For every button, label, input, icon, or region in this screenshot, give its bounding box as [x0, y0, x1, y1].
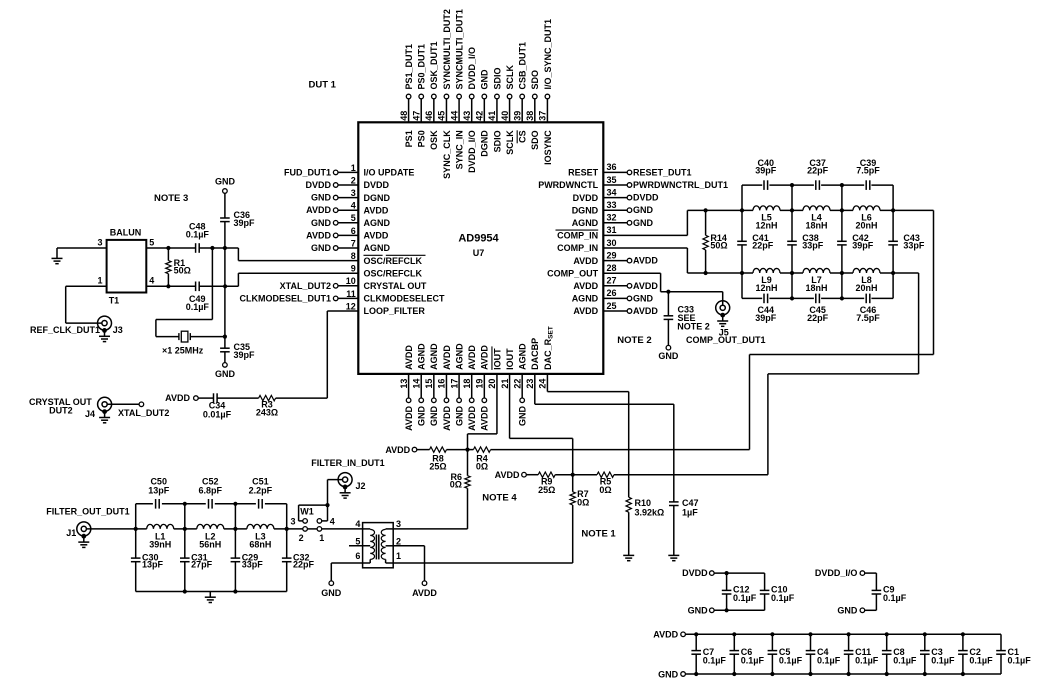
resistor R6	[467, 450, 469, 476]
svg-text:GND: GND	[321, 588, 342, 598]
pin 10 CRYSTAL OUT	[280, 276, 427, 291]
svg-text:AGND: AGND	[572, 294, 599, 304]
svg-text:46: 46	[424, 111, 434, 121]
wire pin 31 COMP_INB to ladder	[603, 234, 687, 236]
svg-text:4: 4	[330, 516, 335, 526]
svg-text:28: 28	[607, 263, 617, 273]
svg-text:23: 23	[525, 379, 535, 389]
pin 16 AVDD	[437, 345, 452, 431]
svg-text:FUD_DUT1: FUD_DUT1	[284, 167, 331, 177]
svg-text:AVDD: AVDD	[467, 345, 477, 370]
svg-text:48: 48	[399, 111, 409, 121]
wire transformer pin 6 to GND terminal	[331, 562, 362, 564]
ground at J2	[343, 485, 348, 490]
svg-text:OSK: OSK	[429, 130, 439, 150]
svg-text:AVDD: AVDD	[467, 406, 477, 431]
svg-text:6.8pF: 6.8pF	[199, 485, 223, 495]
svg-text:COMP_OUT_DUT1: COMP_OUT_DUT1	[686, 335, 766, 345]
svg-text:AVDD: AVDD	[306, 230, 331, 240]
capacitor C35 with GND terminal	[224, 337, 226, 349]
svg-text:39nH: 39nH	[149, 539, 171, 549]
svg-text:SDIO: SDIO	[492, 67, 502, 89]
capacitor C46	[866, 294, 870, 304]
pin 47 PS0	[411, 44, 426, 147]
svg-text:PWRDWNCTL: PWRDWNCTL	[538, 180, 598, 190]
svg-text:OSC/REFCLK: OSC/REFCLK	[364, 268, 423, 278]
svg-text:OSC/REFCLK: OSC/REFCLK	[364, 256, 423, 266]
capacitor C45	[816, 294, 820, 304]
svg-text:26: 26	[607, 288, 617, 298]
svg-text:0.01µF: 0.01µF	[203, 410, 232, 420]
svg-text:33pF: 33pF	[242, 560, 264, 570]
filter top wire with caps	[136, 503, 153, 505]
pin 4 AVDD	[306, 201, 389, 216]
svg-text:AVDD: AVDD	[364, 231, 389, 241]
ladder top rail	[687, 209, 753, 211]
svg-text:3: 3	[351, 188, 356, 198]
wire crystal to C35 node	[190, 336, 225, 338]
terminal DVDD	[710, 571, 715, 576]
ground at filter	[209, 592, 211, 598]
resistor R4	[468, 449, 474, 451]
svg-text:SYNC_IN: SYNC_IN	[454, 130, 464, 169]
svg-text:REF_CLK_DUT1: REF_CLK_DUT1	[30, 325, 100, 335]
svg-text:13pF: 13pF	[142, 560, 164, 570]
wire ladder bottom rail to R5 row	[918, 273, 920, 374]
pin 42 DGND	[475, 69, 490, 157]
svg-text:AGND: AGND	[364, 218, 391, 228]
svg-text:SYNCMULTI_DUT2: SYNCMULTI_DUT2	[442, 9, 452, 89]
terminal GND under transformer	[329, 581, 334, 586]
svg-text:19: 19	[475, 379, 485, 389]
pin 44 SYNC_IN	[449, 9, 464, 169]
svg-text:243Ω: 243Ω	[256, 408, 278, 418]
svg-text:2: 2	[299, 533, 304, 543]
svg-text:AGND: AGND	[429, 343, 439, 370]
pin 15 AGND	[424, 343, 439, 426]
svg-text:RESET: RESET	[568, 168, 599, 178]
svg-text:AVDD: AVDD	[442, 406, 452, 431]
terminal DVDD_I/O	[860, 571, 865, 576]
capacitor C30	[131, 558, 141, 562]
svg-text:AVDD: AVDD	[633, 306, 658, 316]
svg-text:39pF: 39pF	[755, 166, 777, 176]
wire R3 to pin 12 LOOP_FILTER	[276, 397, 328, 399]
svg-text:0.1µF: 0.1µF	[186, 302, 210, 312]
pin 7 AGND	[311, 238, 390, 253]
svg-text:12nH: 12nH	[755, 283, 777, 293]
svg-text:GND: GND	[480, 69, 490, 90]
svg-text:0.1µF: 0.1µF	[883, 593, 907, 603]
pin 39 CS	[512, 42, 527, 143]
wire R8 to node	[447, 449, 468, 451]
svg-text:0.1µF: 0.1µF	[931, 655, 955, 665]
wire DVDD GND rail	[714, 609, 765, 611]
svg-text:22pF: 22pF	[807, 166, 829, 176]
svg-text:68nH: 68nH	[249, 539, 271, 549]
wire J1 to filter	[86, 528, 147, 530]
wire AVDD rail	[685, 633, 1001, 635]
svg-text:I/O UPDATE: I/O UPDATE	[364, 168, 415, 178]
svg-text:IOUT: IOUT	[492, 348, 502, 370]
terminal AVDD row 1	[412, 447, 417, 452]
transformer T2 core	[375, 535, 377, 560]
svg-text:27pF: 27pF	[191, 560, 213, 570]
svg-text:6: 6	[351, 226, 356, 236]
svg-text:NOTE 1: NOTE 1	[581, 528, 616, 539]
pin 35 PWRDWNCTL	[538, 175, 728, 190]
ground at J5	[720, 313, 725, 318]
terminal GND bypass group	[681, 672, 686, 677]
svg-text:PS1: PS1	[404, 130, 414, 147]
svg-text:PS0_DUT1: PS0_DUT1	[417, 44, 427, 90]
svg-text:DVDD: DVDD	[682, 568, 708, 578]
terminal AVDD row 2	[522, 472, 527, 477]
svg-text:8: 8	[351, 251, 356, 261]
ground at C47	[668, 555, 679, 560]
svg-text:AD9954: AD9954	[458, 233, 499, 245]
resistor R10	[626, 497, 631, 512]
resistor R8	[430, 447, 447, 452]
svg-text:DVDD: DVDD	[364, 180, 390, 190]
capacitor C39	[866, 180, 870, 190]
svg-text:50Ω: 50Ω	[174, 266, 191, 276]
svg-text:NOTE 3: NOTE 3	[154, 193, 188, 204]
capacitor C33	[667, 292, 669, 316]
capacitor C1	[996, 634, 1031, 674]
svg-text:GND: GND	[837, 606, 858, 616]
svg-text:50Ω: 50Ω	[710, 241, 727, 251]
pin 24 DAC_R	[538, 326, 555, 388]
pin 8 OSC/REFCLK	[351, 251, 426, 266]
wire pin 20 IOUTB to node	[496, 374, 498, 434]
svg-text:GND: GND	[429, 406, 439, 427]
pin 27 AVDD	[573, 276, 658, 291]
transformer T2 body	[363, 523, 394, 568]
svg-text:56nH: 56nH	[199, 539, 221, 549]
wire AVDD GND rail	[685, 673, 1001, 675]
svg-text:DVDD: DVDD	[573, 193, 599, 203]
svg-text:AVDD: AVDD	[165, 393, 190, 403]
svg-text:GND: GND	[688, 606, 709, 616]
svg-text:AGND: AGND	[364, 243, 391, 253]
pin 48 PS1	[399, 44, 414, 147]
wire R4 row to right	[491, 449, 750, 451]
pin 28 COMP_OUT	[547, 263, 616, 278]
connector J1	[77, 522, 91, 536]
svg-text:17: 17	[449, 379, 459, 389]
svg-text:AVDD: AVDD	[573, 306, 598, 316]
svg-text:DACBP: DACBP	[530, 338, 540, 370]
svg-text:SYNCMULTI_DUT1: SYNCMULTI_DUT1	[454, 9, 464, 89]
svg-text:16: 16	[437, 379, 447, 389]
ladder vertical columns	[741, 185, 743, 210]
svg-text:1: 1	[319, 533, 324, 543]
svg-text:CS: CS	[518, 130, 528, 143]
capacitor C12	[726, 573, 728, 590]
svg-text:NOTE 2: NOTE 2	[677, 322, 710, 332]
svg-text:7: 7	[351, 238, 356, 248]
svg-text:AVDD: AVDD	[653, 629, 678, 639]
svg-text:AVDD: AVDD	[480, 406, 490, 431]
svg-text:LOOP_FILTER: LOOP_FILTER	[364, 306, 426, 316]
svg-text:GND: GND	[417, 406, 427, 427]
wire transformer pin 2 to AVDD terminal	[393, 545, 424, 547]
jumper W1 bracket wire	[298, 505, 300, 521]
inductor L2	[197, 524, 224, 529]
wire C49 to pin 9 step	[199, 285, 238, 287]
svg-text:4: 4	[351, 201, 356, 211]
wire DVDD rail	[714, 572, 765, 574]
pin 38 SDO	[525, 70, 540, 150]
capacitor C51	[259, 499, 263, 509]
terminal XTAL_DUT2	[139, 402, 144, 407]
svg-text:0.1µF: 0.1µF	[771, 593, 795, 603]
pin 3 DGND	[311, 188, 390, 203]
svg-text:42: 42	[475, 111, 485, 121]
svg-text:18nH: 18nH	[805, 220, 827, 230]
svg-text:AVDD: AVDD	[573, 256, 598, 266]
svg-text:14: 14	[411, 379, 421, 389]
capacitor C32	[282, 558, 292, 562]
capacitor C5	[768, 632, 803, 676]
svg-text:DVDD: DVDD	[305, 180, 331, 190]
ground at J3	[102, 328, 107, 333]
wire balun pin 5 row	[146, 247, 195, 249]
svg-text:T1: T1	[109, 296, 120, 306]
svg-text:29: 29	[607, 250, 617, 260]
IC U7 AD9954 body	[358, 122, 603, 374]
pin 14 AGND	[411, 343, 426, 426]
svg-text:18: 18	[462, 379, 472, 389]
svg-text:11: 11	[346, 289, 356, 299]
svg-text:33pF: 33pF	[802, 241, 824, 251]
wire balun pin 3 to ground	[57, 247, 107, 249]
wire J2 to W1	[328, 479, 343, 481]
svg-text:J1: J1	[66, 528, 76, 538]
connector J2	[338, 473, 352, 487]
resistor R14	[705, 210, 707, 235]
svg-text:39pF: 39pF	[755, 313, 777, 323]
wire crystal loop from OSC node	[211, 248, 213, 320]
capacitor C11	[844, 632, 879, 676]
wire C48 to pin 8 step	[199, 247, 238, 249]
capacitor C49	[196, 282, 200, 292]
svg-text:22pF: 22pF	[752, 241, 774, 251]
svg-text:41: 41	[487, 111, 497, 121]
svg-text:PS0: PS0	[417, 130, 427, 147]
capacitor C44	[764, 294, 768, 304]
svg-text:20: 20	[487, 379, 497, 389]
pin 5 AGND	[311, 213, 390, 228]
svg-text:DUT 1: DUT 1	[309, 80, 337, 91]
inductor L7	[803, 268, 830, 273]
wire R9 to node	[555, 474, 573, 476]
svg-text:4: 4	[149, 276, 154, 286]
wire pin 30 COMP_IN to ladder	[603, 247, 687, 249]
svg-text:4: 4	[355, 519, 360, 529]
svg-text:DVDD_I/O: DVDD_I/O	[467, 47, 477, 90]
wire transformer pin 3 to R6	[393, 528, 467, 530]
capacitor C37	[816, 180, 820, 190]
wire transformer pin 1 to R7	[393, 562, 573, 564]
svg-text:SCLK: SCLK	[505, 65, 515, 90]
resistor R7	[572, 475, 574, 492]
pin 31 COMP_IN	[556, 225, 617, 240]
svg-text:0.1µF: 0.1µF	[817, 655, 841, 665]
svg-text:40: 40	[500, 111, 510, 121]
inductor L1	[147, 524, 174, 529]
wire AVDD to R8	[417, 449, 430, 451]
svg-text:0.1µF: 0.1µF	[186, 230, 210, 240]
inductor L9	[753, 268, 780, 273]
svg-text:7.5pF: 7.5pF	[856, 166, 880, 176]
svg-text:32: 32	[607, 213, 617, 223]
svg-text:AGND: AGND	[518, 343, 528, 370]
svg-text:18nH: 18nH	[805, 283, 827, 293]
wire C34 to R3	[217, 397, 259, 399]
node IOUTB junction	[465, 448, 469, 452]
capacitor C48	[196, 243, 200, 253]
wire node to R5	[573, 474, 597, 476]
svg-text:39pF: 39pF	[234, 218, 256, 228]
wire C36 column down to crystal node	[224, 248, 226, 286]
filter bottom wire	[136, 591, 287, 593]
svg-text:SDO: SDO	[530, 70, 540, 90]
capacitor C34	[214, 393, 218, 403]
capacitor C43	[892, 210, 894, 241]
svg-text:13: 13	[399, 379, 409, 389]
svg-text:J3: J3	[113, 325, 123, 335]
svg-text:20nH: 20nH	[855, 283, 877, 293]
svg-text:22: 22	[512, 379, 522, 389]
inductor L4	[803, 206, 830, 211]
wire balun pin 1 to J3	[66, 285, 107, 287]
pin 20 IOUT	[487, 346, 502, 388]
resistor R5	[597, 472, 614, 477]
svg-text:COMP_IN: COMP_IN	[557, 231, 598, 241]
svg-text:0.1µF: 0.1µF	[733, 593, 757, 603]
svg-text:25Ω: 25Ω	[429, 461, 446, 471]
svg-text:DVDD_I/O: DVDD_I/O	[815, 568, 858, 578]
svg-text:GND: GND	[633, 293, 654, 303]
wire pin 21 IOUT to node	[509, 374, 511, 439]
svg-text:W1: W1	[300, 506, 314, 516]
crystal X1 25MHz	[179, 333, 190, 340]
connector J3 REF_CLK_DUT1	[98, 316, 112, 330]
svg-text:0.1µF: 0.1µF	[1008, 655, 1032, 665]
svg-text:GND: GND	[215, 369, 236, 379]
svg-text:U7: U7	[473, 248, 485, 258]
terminal AVDD under transformer	[422, 581, 427, 586]
svg-text:20nH: 20nH	[855, 220, 877, 230]
svg-text:AVDD: AVDD	[364, 205, 389, 215]
svg-text:3: 3	[290, 516, 295, 526]
svg-text:COMP_OUT: COMP_OUT	[547, 268, 599, 278]
svg-text:J2: J2	[356, 481, 366, 491]
svg-text:9: 9	[351, 264, 356, 274]
pin 17 AGND	[449, 343, 464, 426]
svg-text:CRYSTAL OUT: CRYSTAL OUT	[364, 281, 427, 291]
svg-text:AVDD: AVDD	[404, 345, 414, 370]
svg-text:0.1µF: 0.1µF	[893, 655, 917, 665]
capacitor C40	[764, 180, 768, 190]
capacitor C2	[958, 632, 993, 676]
svg-text:GND: GND	[311, 218, 332, 228]
svg-text:I/O_SYNC_DUT1: I/O_SYNC_DUT1	[543, 19, 553, 90]
svg-text:GND: GND	[633, 205, 654, 215]
svg-text:34: 34	[607, 187, 617, 197]
svg-text:7.5pF: 7.5pF	[856, 313, 880, 323]
svg-text:6: 6	[355, 551, 360, 561]
wire pin 24 DAC_RSET to R10	[546, 374, 548, 392]
svg-text:GND: GND	[633, 218, 654, 228]
svg-text:RESET_DUT1: RESET_DUT1	[633, 167, 692, 177]
svg-text:IOSYNC: IOSYNC	[543, 130, 553, 165]
connector J4	[98, 397, 112, 411]
svg-text:COMP_IN: COMP_IN	[557, 243, 598, 253]
svg-text:PS1_DUT1: PS1_DUT1	[404, 44, 414, 90]
capacitor C31	[180, 558, 190, 562]
capacitor C42	[841, 210, 843, 241]
pin 2 DVDD	[305, 175, 389, 190]
transformer T2 pin 5 stub	[349, 545, 370, 547]
pin 45 SYNC_CLK	[437, 9, 452, 179]
svg-text:30: 30	[607, 238, 617, 248]
svg-text:AVDD: AVDD	[480, 345, 490, 370]
svg-text:0Ω: 0Ω	[599, 485, 611, 495]
pin 22 AGND	[512, 343, 527, 426]
transformer T2 primary coil	[363, 528, 371, 530]
svg-text:5: 5	[355, 536, 360, 546]
capacitor C7	[691, 632, 726, 676]
pin 34 DVDD	[573, 187, 659, 202]
svg-text:1µF: 1µF	[682, 508, 698, 518]
terminal GND DVDD_I/O group	[860, 608, 865, 613]
pin 29 AVDD	[573, 250, 658, 265]
resistor R3	[259, 395, 276, 400]
svg-text:25: 25	[607, 301, 617, 311]
svg-text:AVDD: AVDD	[412, 588, 437, 598]
svg-text:DGND: DGND	[572, 205, 599, 215]
pin 43 DVDD_I/O	[462, 47, 477, 173]
wire J4 to XTAL_DUT2 terminal	[107, 403, 139, 405]
svg-text:SDO: SDO	[530, 130, 540, 150]
svg-text:39pF: 39pF	[852, 241, 874, 251]
svg-text:GND: GND	[518, 406, 528, 427]
svg-text:NOTE 2: NOTE 2	[617, 335, 651, 346]
svg-text:GND: GND	[454, 406, 464, 427]
svg-text:2: 2	[351, 175, 356, 185]
svg-text:35: 35	[607, 175, 617, 185]
pin 11 CLKMODESELECT	[239, 289, 445, 304]
svg-text:24: 24	[538, 379, 548, 389]
ground at balun pin 3	[52, 258, 63, 263]
pin 46 OSK	[424, 41, 439, 149]
capacitor C41	[741, 210, 743, 241]
svg-text:GND: GND	[311, 193, 332, 203]
capacitor C4	[806, 632, 841, 676]
pin 25 AVDD	[573, 301, 658, 316]
svg-text:33: 33	[607, 200, 617, 210]
svg-text:3: 3	[97, 237, 102, 247]
svg-text:XTAL_DUT2: XTAL_DUT2	[280, 281, 331, 291]
svg-text:FILTER_IN_DUT1: FILTER_IN_DUT1	[311, 458, 384, 468]
svg-text:44: 44	[449, 111, 459, 121]
inductor L6	[853, 206, 880, 211]
wire ladder top rail to R4 row	[933, 210, 935, 354]
pin 12 LOOP_FILTER	[346, 301, 426, 316]
